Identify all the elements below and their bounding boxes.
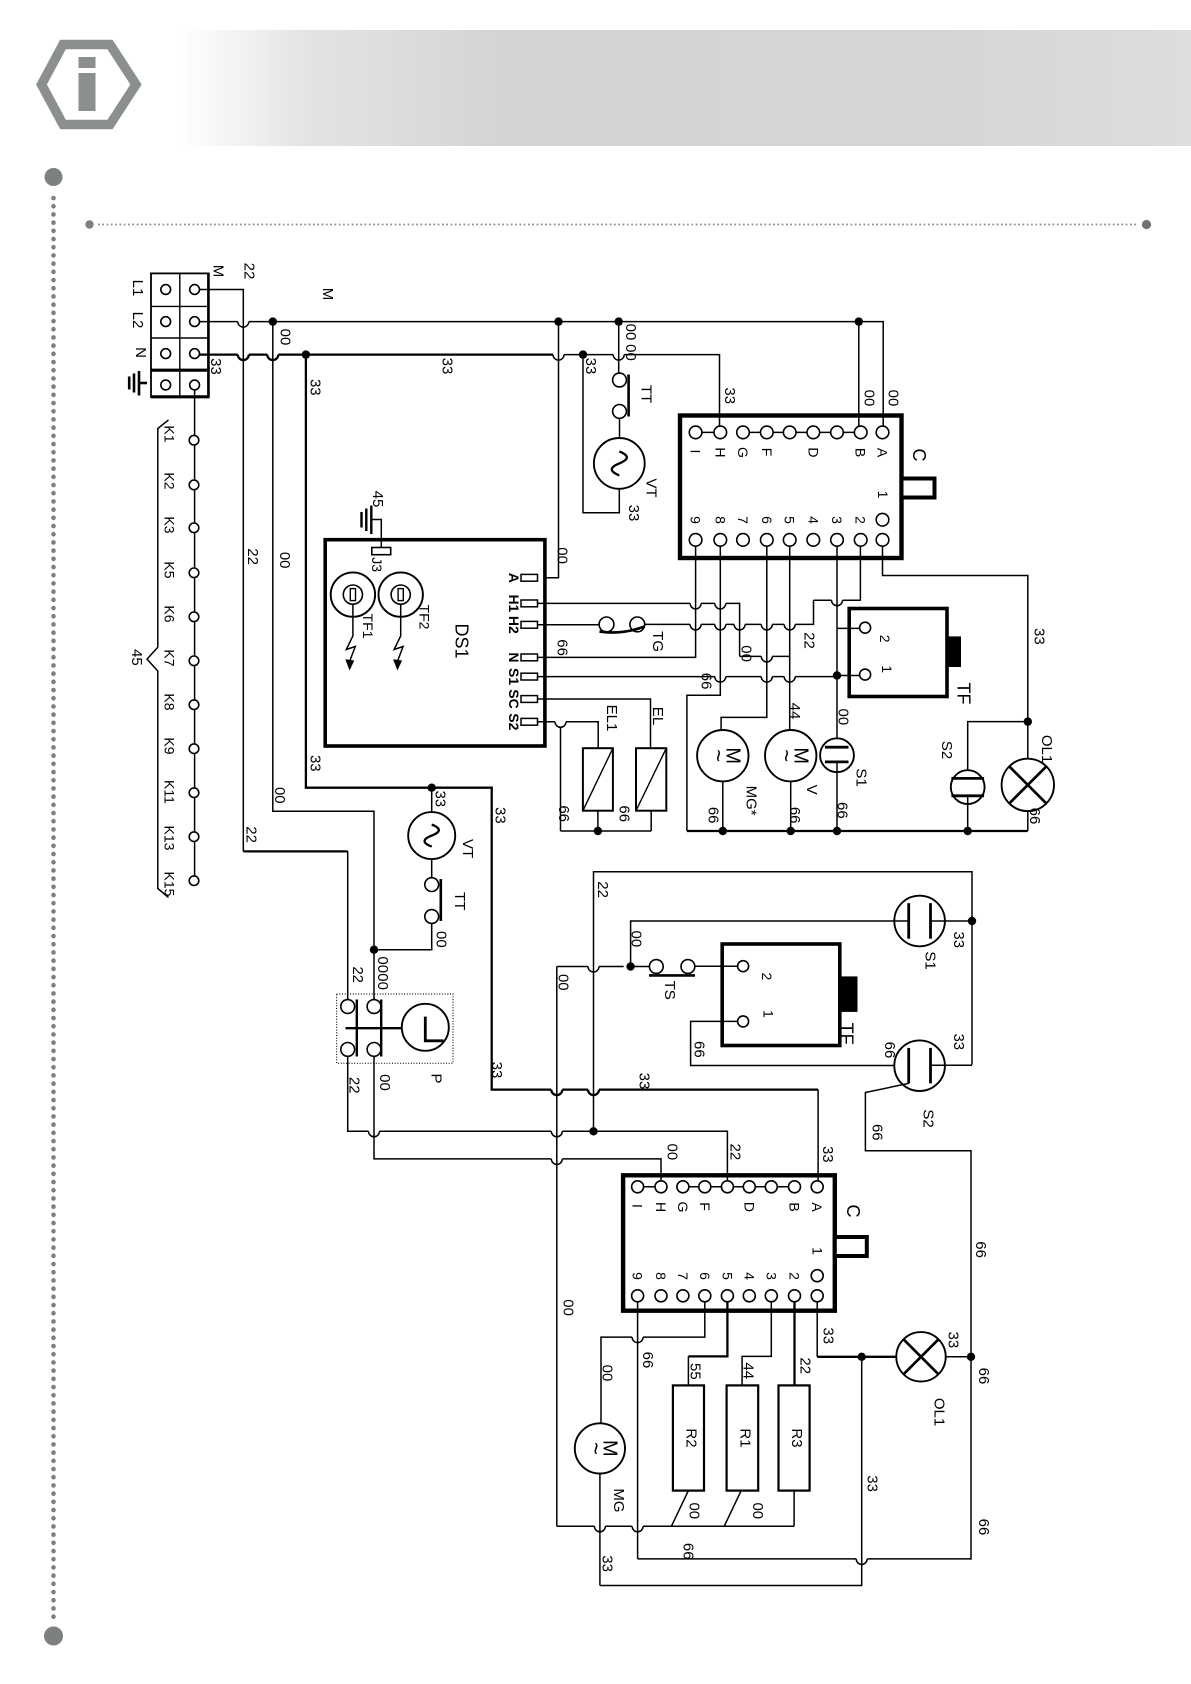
svg-text:EL1: EL1 bbox=[603, 705, 620, 732]
switch TS bbox=[649, 960, 695, 976]
svg-text:TS: TS bbox=[661, 981, 678, 1000]
svg-text:33: 33 bbox=[721, 387, 738, 404]
wire S1 left to TS bbox=[631, 921, 895, 967]
svg-text:R3: R3 bbox=[788, 1428, 805, 1447]
svg-text:2: 2 bbox=[759, 973, 775, 981]
DS1 pad S2 bbox=[521, 718, 538, 725]
svg-text:5: 5 bbox=[719, 1272, 735, 1280]
connector C upper top pin circles bbox=[689, 426, 889, 439]
switch TT lower bbox=[425, 878, 441, 924]
svg-text:7: 7 bbox=[675, 1272, 691, 1280]
wire 33 from N across bbox=[200, 355, 554, 361]
wire 00 left column to P bbox=[273, 322, 374, 1000]
svg-text:H: H bbox=[653, 1202, 669, 1212]
svg-text:MG: MG bbox=[610, 1488, 627, 1512]
connector C lower pin link bars bbox=[644, 1186, 789, 1188]
wire 66 bottom line bbox=[638, 1559, 971, 1565]
svg-text:00: 00 bbox=[663, 1144, 680, 1161]
junction dots on 00 line bbox=[269, 317, 277, 325]
motor MG bbox=[575, 1423, 625, 1473]
svg-text:33: 33 bbox=[950, 1033, 967, 1050]
svg-text:66: 66 bbox=[691, 1041, 708, 1058]
svg-text:33: 33 bbox=[625, 505, 642, 522]
wire VT to TT lower bbox=[431, 859, 433, 878]
connector C upper pin link bars bbox=[702, 431, 855, 433]
wire pin3 to R1 bbox=[742, 1302, 771, 1386]
svg-text:00: 00 bbox=[738, 645, 755, 662]
svg-text:33: 33 bbox=[1031, 628, 1048, 645]
svg-text:00: 00 bbox=[835, 709, 852, 726]
svg-text:3: 3 bbox=[829, 516, 845, 524]
svg-text:33: 33 bbox=[207, 358, 224, 375]
svg-text:66: 66 bbox=[1026, 808, 1043, 825]
svg-text:00: 00 bbox=[560, 1299, 577, 1316]
svg-text:4: 4 bbox=[741, 1272, 757, 1280]
wire R1 bottom diagonal bbox=[724, 1491, 741, 1527]
svg-text:22: 22 bbox=[349, 966, 366, 983]
svg-text:~: ~ bbox=[706, 749, 731, 762]
capacitor S1 upper bbox=[820, 738, 854, 772]
svg-text:M: M bbox=[210, 265, 227, 278]
lamp OL1 upper bbox=[1002, 759, 1054, 811]
svg-text:I: I bbox=[688, 450, 704, 454]
svg-text:H2: H2 bbox=[506, 616, 522, 634]
wire pin6 to MG* bbox=[721, 546, 767, 730]
svg-text:2: 2 bbox=[787, 1272, 803, 1280]
svg-text:22: 22 bbox=[800, 632, 817, 649]
svg-text:K8: K8 bbox=[161, 693, 177, 710]
svg-text:22: 22 bbox=[241, 263, 258, 280]
svg-text:00: 00 bbox=[622, 344, 639, 361]
wire pin5 to V motor bbox=[789, 546, 791, 730]
wire S1 row to TF dot bbox=[538, 677, 837, 683]
svg-text:33: 33 bbox=[582, 358, 599, 375]
wire 00 drop to DS1 pin A bbox=[545, 322, 559, 578]
svg-text:A: A bbox=[506, 573, 522, 583]
45 brace along K chain bbox=[147, 420, 169, 898]
connector C lower top pin labels bbox=[630, 1202, 826, 1213]
connector C lower bottom pin labels bbox=[630, 1247, 826, 1280]
svg-text:00: 00 bbox=[749, 1502, 766, 1519]
svg-text:J3: J3 bbox=[369, 557, 385, 572]
junction dot S1 right bbox=[968, 917, 976, 925]
resistor R3 bbox=[779, 1385, 810, 1490]
lamp OL1 lower bbox=[896, 1332, 945, 1381]
svg-text:33: 33 bbox=[432, 790, 449, 807]
resistor R2 bbox=[673, 1385, 704, 1490]
svg-text:5: 5 bbox=[782, 516, 798, 524]
svg-text:45: 45 bbox=[369, 491, 386, 508]
svg-text:S2: S2 bbox=[938, 741, 955, 759]
svg-text:22: 22 bbox=[594, 881, 611, 898]
DS1 pad labels bbox=[506, 573, 522, 731]
svg-text:1: 1 bbox=[809, 1247, 825, 1255]
svg-text:00: 00 bbox=[376, 1074, 393, 1091]
wire pin2 to TF pin2 bbox=[859, 546, 861, 600]
svg-text:33: 33 bbox=[820, 1327, 837, 1344]
wire OL1 left thick bbox=[817, 1356, 896, 1358]
wire TT to VT bbox=[619, 418, 621, 438]
svg-text:VT: VT bbox=[643, 478, 660, 497]
DS1 pad A bbox=[521, 574, 538, 581]
wire N row to pin9 bbox=[538, 546, 696, 657]
svg-text:S1: S1 bbox=[922, 951, 939, 969]
svg-text:22: 22 bbox=[727, 1144, 744, 1161]
connector C lower top pin circles bbox=[632, 1181, 824, 1193]
connector C upper bottom pin circles bbox=[689, 513, 889, 546]
svg-text:H: H bbox=[712, 447, 728, 457]
svg-text:A: A bbox=[809, 1202, 825, 1212]
svg-text:33: 33 bbox=[307, 755, 324, 772]
wire 66 left rail bbox=[561, 830, 652, 832]
timer P block bbox=[337, 994, 453, 1063]
svg-text:55: 55 bbox=[687, 1363, 704, 1380]
svg-text:TT: TT bbox=[638, 385, 655, 403]
svg-text:66: 66 bbox=[975, 1519, 992, 1536]
svg-text:00: 00 bbox=[271, 787, 288, 804]
vertical dotted guide line bbox=[44, 168, 63, 1646]
svg-text:00: 00 bbox=[884, 390, 901, 407]
svg-text:00: 00 bbox=[374, 956, 391, 973]
svg-text:33: 33 bbox=[488, 1062, 505, 1079]
svg-text:K9: K9 bbox=[161, 737, 177, 754]
wire TT branch from 00 line bbox=[618, 322, 620, 374]
svg-text:C: C bbox=[843, 1205, 863, 1218]
wire P left pin down to 22 line bbox=[348, 1056, 728, 1180]
svg-text:66: 66 bbox=[868, 1124, 885, 1141]
wire EL bottom bbox=[650, 811, 652, 831]
svg-text:66: 66 bbox=[834, 802, 851, 819]
switch TT upper bbox=[613, 373, 629, 418]
svg-text:P: P bbox=[427, 1073, 444, 1083]
ground symbol 45 above DS1 bbox=[362, 506, 372, 535]
svg-text:A: A bbox=[875, 448, 891, 458]
junction dots on 33 line bbox=[302, 350, 310, 358]
svg-text:B: B bbox=[853, 448, 869, 457]
capacitor S2 lower bbox=[894, 1040, 972, 1091]
svg-text:45: 45 bbox=[128, 649, 145, 666]
svg-text:7: 7 bbox=[735, 516, 751, 524]
svg-text:K7: K7 bbox=[161, 649, 177, 666]
junction dot 00 at TT bbox=[370, 946, 378, 954]
svg-text:66: 66 bbox=[881, 1042, 898, 1059]
svg-text:1: 1 bbox=[875, 491, 891, 499]
svg-text:K5: K5 bbox=[161, 561, 177, 578]
wire 33 drop to pin A lower bbox=[817, 1090, 819, 1181]
svg-text:4: 4 bbox=[805, 516, 821, 524]
wire H1 row bbox=[538, 603, 740, 651]
svg-text:F: F bbox=[759, 448, 775, 457]
wire S2 bottom bbox=[967, 796, 969, 831]
wire TS to TF2 pin2 bbox=[695, 965, 738, 967]
thermostat knob TF1 bbox=[331, 572, 375, 670]
svg-text:TG: TG bbox=[649, 631, 666, 652]
svg-text:00: 00 bbox=[686, 1502, 703, 1519]
junction dot 22 line bbox=[589, 1127, 597, 1135]
svg-text:R2: R2 bbox=[682, 1428, 699, 1447]
svg-text:OL1: OL1 bbox=[931, 1398, 948, 1426]
junction dot TS bbox=[626, 962, 634, 970]
info icon i glyph bbox=[79, 57, 96, 111]
svg-text:9: 9 bbox=[630, 1272, 646, 1280]
svg-text:33: 33 bbox=[635, 1073, 652, 1090]
wire P right pin down to 00 line bbox=[374, 1056, 661, 1180]
svg-text:D: D bbox=[805, 447, 821, 457]
wire OL1 right bbox=[946, 1356, 971, 1358]
svg-text:S1: S1 bbox=[506, 668, 522, 685]
svg-text:44: 44 bbox=[786, 703, 803, 720]
motor VT upper bbox=[594, 438, 645, 489]
wire tap to VT lower bbox=[431, 788, 433, 812]
svg-text:~: ~ bbox=[774, 749, 799, 762]
wire SC row to EL bbox=[538, 699, 651, 748]
svg-text:G: G bbox=[675, 1202, 691, 1213]
svg-text:8: 8 bbox=[653, 1272, 669, 1280]
horizontal dotted guide line bbox=[85, 220, 1151, 229]
svg-text:G: G bbox=[735, 447, 751, 458]
wire pin3 to S1 bbox=[836, 546, 838, 747]
wire tee to S2 bbox=[968, 722, 1028, 779]
svg-text:C: C bbox=[909, 449, 929, 462]
svg-text:TF2: TF2 bbox=[417, 605, 433, 630]
svg-text:N: N bbox=[132, 347, 149, 358]
svg-text:L2: L2 bbox=[129, 312, 146, 329]
svg-text:33: 33 bbox=[819, 1146, 836, 1163]
svg-text:66: 66 bbox=[786, 807, 803, 824]
DS1 pad H2 bbox=[521, 621, 538, 628]
svg-text:66: 66 bbox=[972, 1241, 989, 1258]
thermostat knob TF2 bbox=[379, 572, 423, 670]
link J3 bbox=[372, 548, 391, 555]
wire pin9 lower to 66 bbox=[637, 1302, 639, 1559]
wire V bottom bbox=[790, 781, 792, 831]
svg-text:22: 22 bbox=[796, 1357, 813, 1374]
svg-text:66: 66 bbox=[975, 1368, 992, 1385]
svg-text:MG*: MG* bbox=[742, 786, 759, 816]
wire EL1 bottom bbox=[597, 811, 599, 831]
svg-text:33: 33 bbox=[599, 1555, 616, 1572]
junction dot VT lower tap bbox=[428, 784, 436, 792]
svg-text:TF1: TF1 bbox=[360, 614, 376, 639]
svg-text:3: 3 bbox=[763, 1272, 779, 1280]
wire TF2 pin1 to S2 66 bbox=[691, 1021, 908, 1065]
junction dots OL1 bbox=[858, 1353, 866, 1361]
svg-text:TT: TT bbox=[451, 892, 468, 910]
svg-text:I: I bbox=[630, 1204, 646, 1208]
svg-text:00: 00 bbox=[599, 1365, 616, 1382]
wire 00 drop to pin B bbox=[858, 322, 860, 427]
timer P clock bbox=[402, 1004, 449, 1051]
svg-text:44: 44 bbox=[740, 1362, 757, 1379]
wire 22 riser TS area bbox=[594, 872, 973, 1132]
wire 66 main rail bbox=[687, 830, 1028, 832]
svg-text:K13: K13 bbox=[161, 826, 177, 851]
wire 22 from L1 to P bbox=[200, 290, 244, 852]
wire pin6 to MG bbox=[601, 1302, 705, 1424]
svg-text:33: 33 bbox=[491, 807, 508, 824]
DS1 pad SC bbox=[521, 696, 538, 703]
svg-text:B: B bbox=[787, 1202, 803, 1211]
wire 33 bottom path bbox=[600, 1357, 862, 1586]
motor V bbox=[765, 730, 816, 781]
wire pin8 to 66 rail bbox=[687, 546, 720, 831]
DS1 pad S1 bbox=[521, 673, 538, 680]
svg-text:K11: K11 bbox=[161, 780, 177, 804]
wire MG* bottom bbox=[722, 781, 724, 831]
svg-text:~: ~ bbox=[583, 1442, 608, 1455]
svg-text:TF: TF bbox=[837, 1023, 857, 1045]
junction dot S2 tee bbox=[1024, 717, 1032, 725]
DS1 pad H1 bbox=[521, 600, 538, 607]
resistor EL1 bbox=[583, 748, 613, 811]
svg-text:SC: SC bbox=[506, 689, 522, 708]
svg-text:R1: R1 bbox=[736, 1428, 753, 1447]
wire 66 left drop bbox=[560, 727, 562, 832]
K chain contact circles bbox=[189, 435, 199, 885]
connector C lower bottom pin circles bbox=[632, 1270, 824, 1302]
fuse TG bbox=[599, 617, 645, 633]
wire 00 from L2 across top bbox=[200, 322, 884, 427]
relay TF upper bbox=[849, 609, 961, 697]
svg-text:33: 33 bbox=[945, 1332, 962, 1349]
svg-text:00: 00 bbox=[374, 973, 391, 990]
wire pin5 to R2 bbox=[688, 1302, 727, 1357]
svg-text:00: 00 bbox=[276, 329, 293, 346]
svg-text:00: 00 bbox=[276, 552, 293, 569]
resistor R1 bbox=[727, 1385, 759, 1490]
wire H2 row to TG bbox=[538, 624, 600, 626]
svg-text:33: 33 bbox=[438, 358, 455, 375]
svg-text:66: 66 bbox=[616, 805, 633, 822]
capacitor S2 upper bbox=[951, 770, 985, 804]
wire TG onward to pin2 jog bbox=[645, 600, 814, 630]
svg-text:33: 33 bbox=[950, 931, 967, 948]
wire pin2 to R3 bbox=[793, 1302, 795, 1386]
svg-text:V: V bbox=[803, 785, 820, 795]
resistor EL bbox=[636, 748, 666, 811]
wire MG bottom to 33 bbox=[599, 1474, 601, 1586]
svg-text:K2: K2 bbox=[161, 472, 177, 489]
capacitor S1 lower bbox=[894, 896, 972, 947]
svg-text:8: 8 bbox=[712, 516, 728, 524]
motor VT lower bbox=[408, 812, 455, 859]
svg-text:S1: S1 bbox=[852, 768, 869, 786]
svg-text:DS1: DS1 bbox=[452, 623, 472, 658]
connector C upper bottom pin labels bbox=[688, 491, 891, 525]
svg-text:L1: L1 bbox=[129, 280, 146, 297]
svg-text:EL: EL bbox=[649, 707, 666, 725]
svg-text:1: 1 bbox=[879, 665, 895, 673]
svg-text:00: 00 bbox=[628, 931, 645, 948]
svg-text:F: F bbox=[697, 1202, 713, 1211]
earth chain wire to K contacts bbox=[194, 390, 196, 876]
earth symbol at terminal bbox=[129, 371, 147, 396]
wire 00 bottom rail bbox=[557, 967, 794, 1532]
svg-text:9: 9 bbox=[688, 516, 704, 524]
svg-text:66: 66 bbox=[697, 673, 714, 690]
wire ground to J3 bbox=[371, 520, 381, 548]
connector C lower block bbox=[623, 1175, 867, 1310]
K labels bbox=[161, 425, 177, 896]
wire pin1 to OL1 top right bbox=[883, 546, 1028, 759]
svg-text:22: 22 bbox=[244, 548, 261, 565]
svg-text:M: M bbox=[319, 288, 336, 301]
svg-text:N: N bbox=[506, 652, 522, 662]
svg-text:00: 00 bbox=[622, 324, 639, 341]
svg-text:33: 33 bbox=[307, 379, 324, 396]
wire S2 row to EL1 bbox=[538, 722, 599, 748]
svg-text:00: 00 bbox=[860, 390, 877, 407]
svg-text:6: 6 bbox=[697, 1272, 713, 1280]
motor MG* bbox=[697, 730, 748, 781]
relay TF lower bbox=[722, 944, 857, 1046]
wire VT bottom to 33 bbox=[583, 355, 619, 513]
svg-text:00: 00 bbox=[433, 931, 450, 948]
svg-text:33: 33 bbox=[864, 1475, 881, 1492]
terminal block M bbox=[151, 273, 210, 397]
svg-text:K3: K3 bbox=[161, 516, 177, 533]
wire R2 bottom diagonal bbox=[671, 1491, 688, 1527]
svg-text:OL1: OL1 bbox=[1038, 735, 1055, 763]
connector C upper top pin labels bbox=[688, 447, 891, 458]
wire TS line left bbox=[557, 967, 650, 973]
svg-text:D: D bbox=[741, 1202, 757, 1212]
wire OL1 bottom bbox=[1027, 811, 1029, 831]
svg-text:S2: S2 bbox=[506, 713, 522, 730]
svg-text:2: 2 bbox=[877, 635, 893, 643]
svg-text:H1: H1 bbox=[506, 594, 522, 612]
wire pin1 lower to OL1 bbox=[816, 1302, 818, 1357]
svg-text:66: 66 bbox=[639, 1352, 656, 1369]
wire 33 thick main path bbox=[306, 355, 818, 1096]
svg-text:2: 2 bbox=[853, 516, 869, 524]
svg-text:TF: TF bbox=[953, 683, 973, 705]
wire 66 S2 long path bbox=[865, 1083, 971, 1559]
svg-text:6: 6 bbox=[759, 516, 775, 524]
svg-text:66: 66 bbox=[555, 805, 572, 822]
wire R3 bottom bbox=[793, 1491, 795, 1527]
svg-text:66: 66 bbox=[705, 807, 722, 824]
svg-text:VT: VT bbox=[459, 839, 476, 858]
connector C upper block bbox=[680, 416, 935, 559]
wire TT lower to 00 junction bbox=[374, 923, 432, 949]
junction dot TF1 net bbox=[833, 671, 841, 679]
svg-text:S2: S2 bbox=[920, 1109, 937, 1127]
svg-text:22: 22 bbox=[242, 826, 259, 843]
svg-text:K6: K6 bbox=[161, 605, 177, 622]
box DS1 bbox=[325, 540, 545, 746]
info icon hexagon bbox=[42, 45, 137, 125]
svg-text:K1: K1 bbox=[161, 425, 177, 442]
wire S1 bottom bbox=[836, 762, 838, 831]
svg-text:00: 00 bbox=[554, 547, 571, 564]
wire dot to TF pin1 bbox=[837, 675, 860, 677]
svg-text:1: 1 bbox=[761, 1010, 777, 1018]
svg-text:66: 66 bbox=[679, 1543, 696, 1560]
svg-text:66: 66 bbox=[554, 639, 571, 656]
DS1 pad N bbox=[521, 654, 538, 661]
